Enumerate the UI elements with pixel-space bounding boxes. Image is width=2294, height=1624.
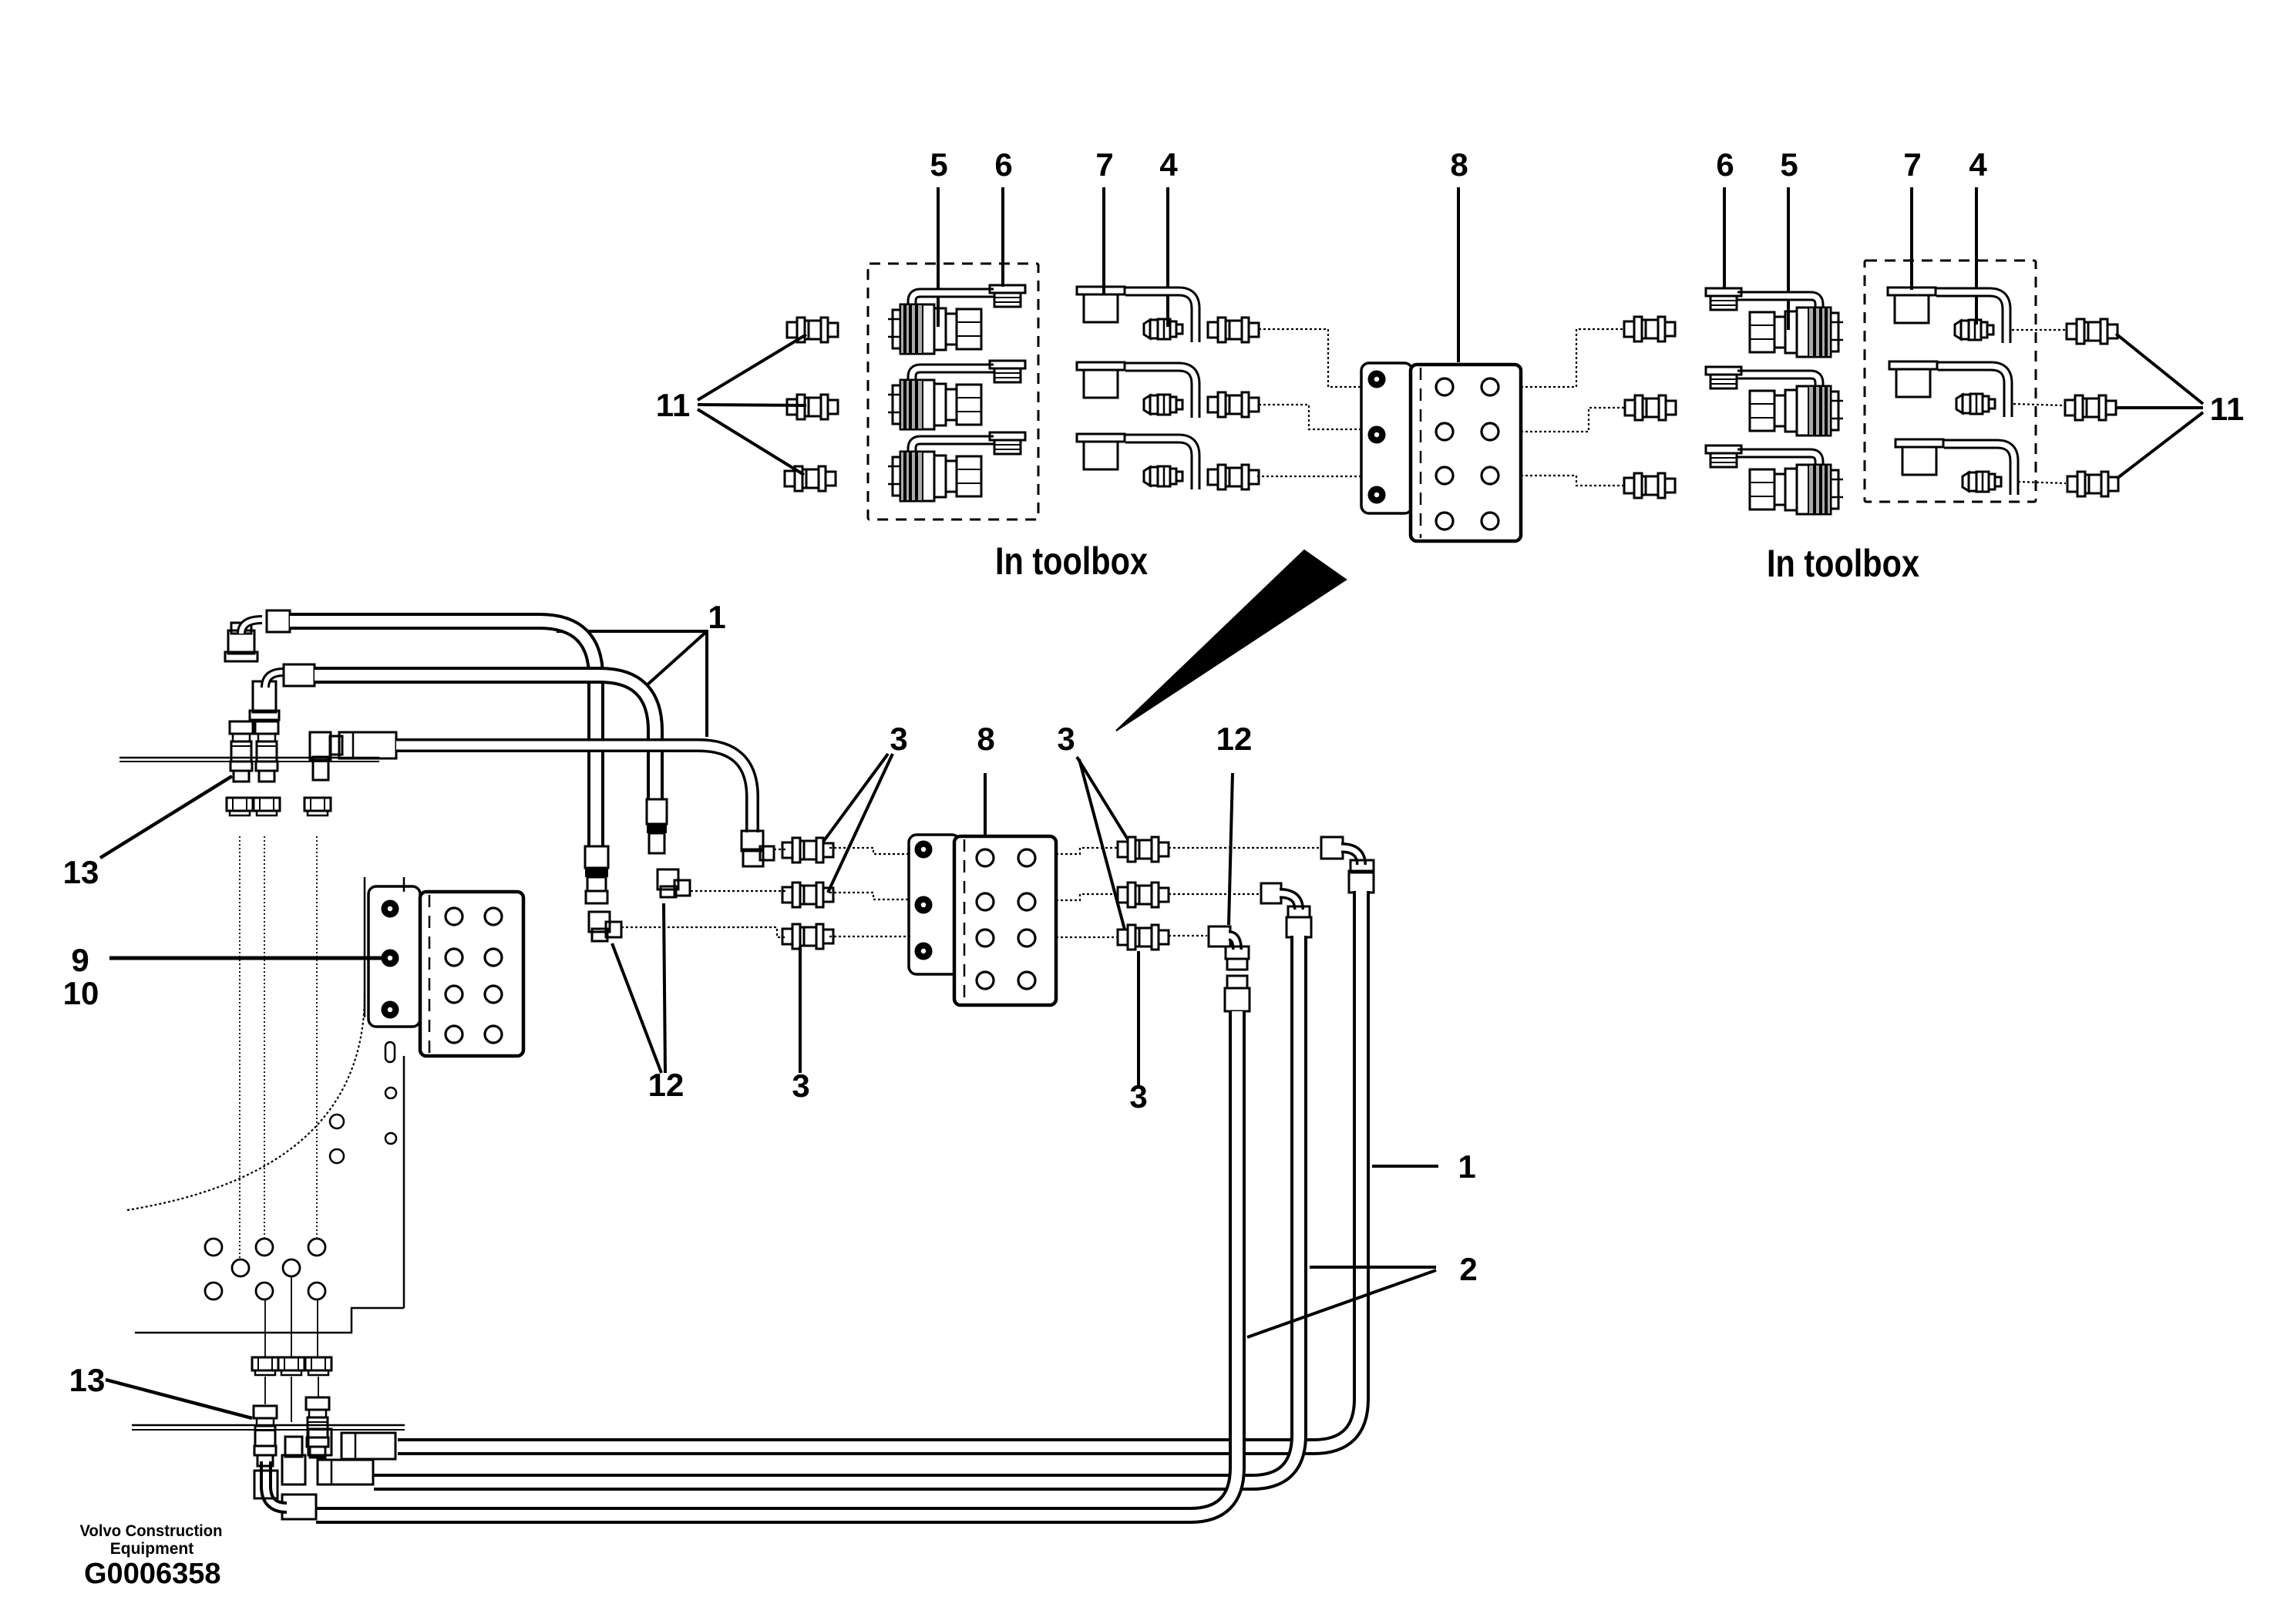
cap 7 / plug 4 unit, middle row1 — [1077, 287, 1196, 342]
dashed toolbox box left — [868, 264, 1038, 519]
hose 1 (long, curving down) — [290, 621, 596, 846]
leader 6 right — [1723, 187, 1726, 289]
leader 13 bottom — [106, 1380, 252, 1418]
fitting 11 row1 right — [2067, 319, 2117, 344]
hose riser B — [374, 936, 1299, 1482]
leader 12 right — [1229, 773, 1233, 925]
dashed toolbox box right — [1865, 261, 2036, 502]
wire manifold to 3 right row3 — [1056, 936, 1118, 938]
fitting 11 row2 left — [787, 395, 838, 419]
hose 3 lower connector — [742, 831, 763, 851]
cap 7 / plug 4 unit, middle row3 — [1077, 434, 1196, 489]
coupler 5 with elbow and cap 6, left row3 — [888, 432, 1025, 501]
fitting 11 row3 left — [785, 466, 836, 491]
svg-text:12: 12 — [1216, 721, 1253, 757]
leader 4 — [1166, 187, 1169, 327]
fitting 11 row1 left — [787, 318, 838, 342]
svg-text:7: 7 — [1903, 146, 1921, 183]
coupler 5 with elbow and cap 6, left row2 — [888, 361, 1025, 429]
drop line nut b — [291, 1276, 292, 1357]
hose 2 (long, curving down) — [314, 675, 655, 799]
bracket hole a — [385, 1088, 396, 1098]
svg-text:1: 1 — [708, 599, 725, 635]
wire 3 right row1 to riser C — [1169, 847, 1321, 849]
bracket sheet right edge — [403, 1056, 405, 1308]
svg-text:3: 3 — [890, 721, 907, 757]
leader 9 — [109, 957, 389, 960]
leader 7 — [1102, 187, 1105, 295]
fitting 3 left row2 — [782, 883, 833, 907]
manifold bracket 9/10 (lower left) — [368, 886, 523, 1056]
coupler 5 with elbow and cap 6, right row1 — [1706, 288, 1843, 357]
leader 1 right — [1372, 1165, 1438, 1168]
svg-text:G0006358: G0006358 — [84, 1558, 221, 1590]
svg-text:8: 8 — [977, 721, 994, 757]
svg-text:3: 3 — [792, 1068, 809, 1104]
bracket sheet edge top tick — [403, 877, 405, 892]
svg-text:13: 13 — [63, 854, 99, 890]
leader 3 right b — [1079, 759, 1125, 930]
svg-text:6: 6 — [1716, 146, 1734, 183]
leader 8 — [1457, 187, 1460, 362]
wire mid row2 to manifold — [1259, 405, 1363, 429]
cap 7 / plug 4 unit, right row3 — [1895, 439, 2014, 495]
wire right box to fitting row3 — [2018, 482, 2066, 483]
svg-text:10: 10 — [63, 975, 99, 1011]
leader 5 — [937, 187, 940, 327]
fitting 3 left row1 — [782, 838, 833, 862]
wire 3 left row2 to manifold — [829, 893, 910, 899]
wire hose3 elbow to fitting 3 row1 — [774, 849, 787, 850]
fitting right of manifold row2 — [1625, 395, 1676, 420]
riser C connector — [1349, 871, 1374, 893]
fitting right of manifold row3 — [1624, 473, 1675, 498]
leader 13 upper — [100, 776, 232, 858]
fitting 11 row3 right — [2067, 472, 2118, 496]
svg-text:13: 13 — [69, 1362, 106, 1398]
hole field r2b — [256, 1283, 273, 1300]
hose riser C — [398, 891, 1361, 1447]
drop line below nut b — [291, 1377, 292, 1422]
drop line nut a — [264, 1300, 266, 1357]
wire 3 left row1 to manifold — [829, 848, 910, 854]
upper rail line — [119, 757, 379, 759]
leader 3 bottom left — [799, 946, 802, 1073]
fitting 3 right row3 — [1118, 925, 1169, 950]
bracket sheet arc — [127, 994, 365, 1210]
elbow fitting riser C — [1321, 837, 1343, 859]
leader 12 left a — [664, 903, 665, 1073]
riser B connector — [1287, 917, 1311, 937]
leader 12 left b — [612, 943, 661, 1073]
leader 6 — [1001, 187, 1004, 287]
bracket sheet left edge — [364, 877, 366, 1017]
hose II left ferrule — [318, 1460, 373, 1484]
coupler 5 with elbow and cap 6, right row3 — [1706, 446, 1843, 514]
svg-text:1: 1 — [1458, 1148, 1475, 1185]
leader 11 right a — [2116, 334, 2203, 404]
svg-text:3: 3 — [1057, 721, 1075, 757]
lock nut row a — [227, 798, 253, 815]
wire mid row3 to manifold — [1257, 476, 1363, 477]
leader 5 right — [1787, 187, 1790, 330]
manifold bracket 8 (lower) — [909, 835, 1056, 1005]
hole field mid b — [283, 1259, 300, 1276]
leader 11 left a — [698, 335, 806, 400]
hole field r2a — [205, 1283, 222, 1300]
leader 11 left b — [698, 405, 806, 405]
wire right box to fitting row2 — [2013, 404, 2064, 405]
hose II left elbow — [282, 1455, 305, 1484]
wire manifold to right row1 — [1521, 329, 1624, 387]
hose I left elbow — [308, 1429, 331, 1455]
svg-text:4: 4 — [1969, 146, 1987, 183]
wire right box to fitting row1 — [2012, 329, 2065, 331]
hose 1 upper ferrule — [267, 610, 290, 632]
drop line nut c — [317, 1300, 318, 1357]
hole field r1b — [256, 1239, 273, 1256]
fitting right of manifold row1 — [1624, 317, 1675, 341]
cap 7 / plug 4 unit, middle row2 — [1077, 362, 1196, 418]
wire manifold to right row2 — [1521, 408, 1625, 432]
svg-text:4: 4 — [1159, 146, 1178, 183]
lock nut row b — [254, 798, 280, 815]
cap 7 / plug 4 unit, right row2 — [1889, 361, 2008, 417]
bottom rail line 1 — [132, 1424, 405, 1427]
hose III left ferrule — [282, 1495, 316, 1519]
fitting 3 right row2 — [1118, 883, 1169, 907]
svg-text:2: 2 — [1459, 1251, 1477, 1287]
wire hose1 elbow to fitting 3 row3 — [621, 927, 787, 937]
wire manifold to 3 right row2 — [1056, 894, 1118, 900]
bulkhead fitting 13 upper a — [230, 721, 253, 782]
bracket slot — [385, 1042, 395, 1062]
bracket hole d — [330, 1149, 344, 1163]
hose III left elbow — [266, 1461, 287, 1508]
svg-text:9: 9 — [71, 942, 89, 978]
svg-text:11: 11 — [2210, 391, 2244, 427]
coupler 5 with elbow and cap 6, left row1 — [888, 285, 1025, 354]
elbow fitting (hose3 lower) — [743, 849, 763, 866]
bottom lock nut c — [305, 1357, 331, 1375]
leader 7 right — [1910, 187, 1913, 290]
svg-text:Equipment: Equipment — [110, 1540, 194, 1558]
riser A connector — [1227, 976, 1247, 988]
wire hose2 elbow to fitting 3 row2 — [691, 890, 787, 892]
fitting mid row1 — [1208, 318, 1259, 342]
svg-text:8: 8 — [1450, 146, 1468, 183]
wire 3 left row3 to manifold — [829, 936, 910, 937]
wire mid row1 to manifold — [1259, 329, 1363, 387]
leader 8 lower — [984, 773, 987, 836]
bottom lock nut a — [252, 1357, 278, 1375]
coupler 5 with elbow and cap 6, right row2 — [1706, 367, 1843, 435]
leader 3 left a — [823, 754, 888, 842]
hole field r1c — [308, 1239, 325, 1256]
svg-text:11: 11 — [656, 387, 690, 423]
wire 3 right row2 to riser B — [1169, 893, 1260, 895]
leader 11 right c — [2117, 412, 2203, 479]
manifold bracket 8 (top) — [1361, 363, 1521, 541]
bottom rail line 2 — [132, 1429, 405, 1431]
hose I left ferrule — [341, 1433, 395, 1459]
upper rail line 2 — [119, 761, 379, 762]
leader 2 a — [1310, 1266, 1436, 1269]
drop line below nut a — [264, 1377, 266, 1404]
elbow fitting (hose2 lower) — [658, 869, 678, 889]
leader 1 fan — [557, 631, 707, 737]
elbow fitting 12 (hose1 lower) — [589, 912, 610, 932]
hose 1 upper neck — [241, 620, 262, 634]
fitting 3 right row1 — [1118, 837, 1169, 862]
hose 1 upper (elbow end) — [228, 630, 254, 654]
svg-text:In toolbox: In toolbox — [1767, 542, 1919, 585]
hose 3 ferrule rib — [352, 732, 355, 758]
hose 3 left elbow — [310, 732, 331, 760]
leader 11 right b — [2115, 406, 2203, 409]
leader 4 right — [1975, 187, 1978, 324]
drop line below nut c — [318, 1377, 319, 1397]
elbow fitting riser A — [1209, 926, 1230, 946]
svg-text:7: 7 — [1095, 146, 1113, 183]
hose 2 upper elbow — [253, 681, 276, 712]
svg-text:5: 5 — [1780, 146, 1798, 183]
bottom lock nut b — [278, 1357, 304, 1375]
svg-text:In toolbox: In toolbox — [995, 540, 1148, 583]
bracket hole c — [330, 1115, 344, 1128]
cap 7 / plug 4 unit, right row1 — [1888, 287, 2006, 343]
leader 3 right a — [1077, 757, 1128, 839]
dotted line c — [316, 836, 318, 1241]
hose 3 ferrule — [339, 732, 396, 758]
wire 3 right row3 to riser A — [1169, 935, 1207, 936]
leader 3 bottom right — [1137, 951, 1140, 1087]
svg-text:6: 6 — [994, 146, 1012, 183]
dotted line b — [264, 836, 265, 1241]
bulkhead fitting 13 b — [306, 1397, 329, 1458]
hose 2 upper ferrule — [284, 664, 314, 686]
bracket hole b — [385, 1133, 396, 1144]
leader 2 b — [1247, 1270, 1436, 1337]
fitting 3 left row3 — [782, 924, 833, 949]
fitting 11 row2 right — [2065, 395, 2116, 420]
hole field r1a — [205, 1239, 222, 1256]
fitting mid row2 — [1208, 392, 1259, 417]
hose 1 lower connector — [585, 846, 608, 868]
wire manifold to right row3 — [1521, 476, 1624, 486]
hole field r2c — [308, 1283, 325, 1300]
fitting mid row3 — [1208, 465, 1259, 489]
wire manifold to 3 right row1 — [1056, 848, 1118, 854]
svg-text:5: 5 — [930, 146, 947, 183]
lock nut row c — [304, 798, 331, 815]
bulkhead fitting 13 upper b — [255, 721, 278, 782]
hole field mid a — [232, 1259, 249, 1276]
leader 3 left b — [828, 754, 893, 893]
elbow fitting riser B — [1261, 883, 1281, 903]
black wedge pointer — [1116, 550, 1346, 731]
hose 3 (long, curving down) — [396, 745, 752, 832]
bracket sheet bottom step — [135, 1308, 404, 1333]
hose riser A — [316, 1011, 1237, 1515]
dotted line a — [239, 836, 240, 1259]
bulkhead fitting 13 a — [254, 1406, 277, 1466]
leader 11 left c — [698, 409, 804, 475]
hose 2 lower connector — [647, 799, 667, 824]
svg-text:Volvo Construction: Volvo Construction — [80, 1522, 223, 1540]
